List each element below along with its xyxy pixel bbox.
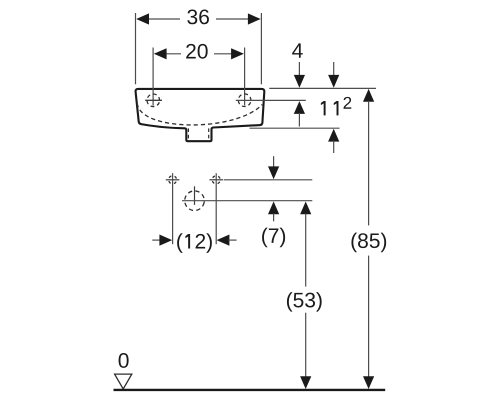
label 4 [292, 43, 303, 57]
fixing hole right crosshair horizontal [209, 179, 223, 181]
label (7) [262, 228, 285, 248]
dim 20 arrowhead right [231, 48, 244, 59]
dim 4 upper stem [298, 62, 300, 76]
dim 36 line left segment [147, 18, 180, 20]
dim 4 lower stem [298, 113, 300, 127]
dim 36 arrowhead right [248, 13, 261, 24]
label (85) [351, 233, 386, 253]
dim 4 up arrowhead [294, 101, 305, 114]
datum triangle [115, 374, 132, 389]
dim 20 arrowhead left [154, 48, 167, 59]
line E drain level with crosshair horizontal [182, 200, 312, 202]
dim 11 lower stem [333, 141, 335, 153]
label 0 [119, 353, 129, 368]
tap hole left crosshair horizontal [145, 99, 162, 101]
label (53) [287, 292, 322, 312]
dim 12 left stem [152, 239, 161, 241]
fixing hole left crosshair horizontal [166, 179, 180, 181]
dim 36 arrowhead left [136, 13, 149, 24]
washbasin outline [136, 89, 265, 141]
line C basin front bottom level [250, 127, 340, 129]
dim 53 lower stem [305, 313, 307, 381]
dim 12 left arrowhead [159, 235, 172, 246]
line D fixing hole level [224, 179, 313, 181]
label (12) [177, 233, 212, 253]
dim 85 upper stem [368, 101, 370, 225]
dim 20 line right segment [214, 53, 234, 55]
label 11 [321, 101, 339, 115]
fixing hole right axis, dim 12 extension [215, 173, 217, 244]
dim 53 upper stem [305, 214, 307, 287]
dim 20 extension line right, tap hole right axis [244, 48, 246, 106]
dim 12 right arrowhead [217, 235, 230, 246]
line A basin rim level [269, 87, 376, 89]
dim 11 down arrowhead [328, 75, 339, 88]
label 36 [187, 9, 209, 24]
dim 85 up arrowhead [363, 89, 374, 102]
dim 20 extension line left, tap hole left axis [152, 48, 154, 106]
dim 85 lower stem [368, 256, 370, 381]
drain hidden dashed line left [187, 128, 189, 140]
line B tap hole level [236, 99, 306, 101]
dim 11 up arrowhead [328, 129, 339, 142]
dim 53 down arrowhead [300, 376, 311, 389]
label 20 [186, 44, 207, 59]
dim 20 line left segment [164, 53, 181, 55]
drain hidden dashed line right [208, 128, 210, 140]
dim 36 extension line right [260, 13, 262, 84]
dim 7 down arrowhead [268, 166, 279, 179]
label sup2 [344, 97, 352, 109]
fixing hole left dashed circle [167, 174, 178, 185]
dim 4 down arrowhead [294, 75, 305, 88]
tap hole right dashed circle [237, 92, 253, 108]
fixing hole right dashed circle [211, 174, 222, 185]
drain trap dashed circle [183, 189, 206, 212]
dim 11 upper stem [333, 62, 335, 76]
fixing hole left axis, dim 12 extension [172, 173, 174, 244]
dim 12 right stem [228, 239, 236, 241]
dim 7 lower stem [273, 213, 275, 221]
dim 7 up arrowhead [268, 201, 279, 214]
dim 36 extension line left [135, 13, 137, 84]
dim 85 down arrowhead [363, 376, 374, 389]
ground line [114, 389, 386, 391]
bowl rim hidden dashed curve [137, 103, 262, 125]
drain trap crosshair vertical [194, 186, 196, 205]
dim 36 line right segment [216, 18, 250, 20]
dim 53 up arrowhead [300, 202, 311, 215]
tap hole left dashed circle [145, 92, 161, 108]
dim 7 upper stem [273, 156, 275, 167]
